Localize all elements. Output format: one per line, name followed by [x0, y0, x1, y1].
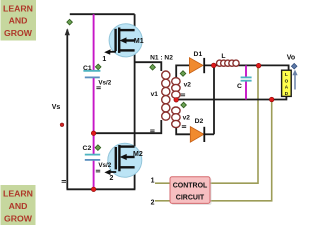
- svg-text:O: O: [285, 78, 289, 83]
- svg-text:GROW: GROW: [4, 214, 33, 224]
- svg-text:LEARN: LEARN: [3, 189, 33, 199]
- svg-text:N1 : N2: N1 : N2: [150, 55, 173, 62]
- svg-text:1: 1: [102, 56, 106, 63]
- svg-text:v2: v2: [183, 115, 191, 122]
- svg-text:C: C: [237, 83, 242, 90]
- svg-text:Vs: Vs: [52, 104, 61, 111]
- svg-text:Vs/2: Vs/2: [98, 80, 111, 87]
- svg-text:Vo: Vo: [287, 55, 295, 62]
- svg-text:M2: M2: [133, 151, 143, 158]
- svg-text:v1: v1: [151, 91, 159, 98]
- svg-text:v2: v2: [184, 81, 192, 88]
- svg-text:CONTROL: CONTROL: [173, 183, 208, 190]
- svg-text:2: 2: [151, 200, 155, 207]
- svg-text:AND: AND: [9, 201, 28, 211]
- svg-text:Vs/2: Vs/2: [98, 162, 111, 169]
- svg-text:D2: D2: [195, 118, 204, 125]
- svg-text:2: 2: [110, 175, 114, 182]
- svg-text:L: L: [221, 53, 225, 60]
- svg-text:LEARN: LEARN: [3, 3, 33, 13]
- svg-text:M1: M1: [134, 38, 144, 45]
- svg-text:L: L: [285, 72, 288, 77]
- svg-text:GROW: GROW: [4, 28, 33, 38]
- svg-text:C1: C1: [83, 65, 92, 72]
- svg-text:1: 1: [151, 178, 155, 185]
- svg-text:AND: AND: [9, 16, 28, 26]
- svg-text:C2: C2: [83, 145, 92, 152]
- svg-text:D1: D1: [194, 51, 203, 58]
- svg-text:CIRCUIT: CIRCUIT: [176, 195, 205, 202]
